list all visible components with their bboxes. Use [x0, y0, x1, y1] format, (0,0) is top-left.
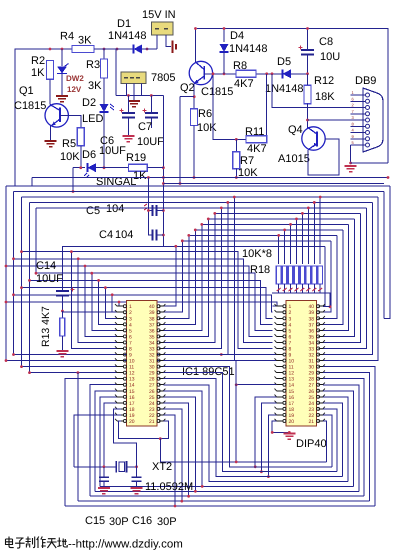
wire bottom bus 9 [163, 367, 331, 467]
DIP40 pin 5 [277, 329, 283, 331]
capacitor C15 [103, 467, 105, 477]
svg-text:1K: 1K [31, 67, 45, 79]
IC1 pin 22 [159, 414, 164, 416]
DIP40 pin 6 [277, 335, 283, 337]
connector DB9 [363, 88, 383, 152]
svg-text:10K*8: 10K*8 [242, 248, 272, 260]
wire bus B1 [6, 302, 277, 306]
DB9 pin 8 [351, 125, 365, 127]
DIP40 pin 27 [318, 384, 323, 386]
DB9 pin 7 [351, 113, 365, 115]
wire IC1 right pin 34 riser [163, 213, 214, 342]
ground DB9 [345, 166, 357, 172]
DIP40 pin 17 [277, 402, 283, 404]
wire bus B3 [22, 288, 273, 319]
wire Q2 collector line [204, 73, 307, 75]
crystal XT2 [116, 461, 126, 473]
DIP40 pin 31 [318, 360, 323, 362]
wire bus B8 [22, 252, 273, 349]
resistor R11 [246, 136, 267, 143]
svg-text:D6: D6 [82, 149, 96, 161]
IC1 pin 31 [159, 360, 164, 362]
IC1 pin 27 [159, 384, 164, 386]
IC1 pin 3 [117, 317, 123, 319]
wire IC1 right pin 38 riser [163, 235, 188, 318]
DIP40 pin 26 [318, 390, 323, 392]
resistor R18 element 2 [284, 230, 286, 264]
svg-text:1N4148: 1N4148 [229, 43, 268, 55]
DIP40 pin 20 [277, 420, 283, 422]
wire IC1 right pin 35 riser [163, 219, 208, 337]
regulator 7805 [121, 72, 146, 84]
svg-text:18K: 18K [315, 91, 335, 103]
wire DIP40 pin19 drop [268, 415, 276, 477]
ground DW2 [56, 96, 68, 102]
svg-text:4K7: 4K7 [234, 78, 254, 90]
ground DIP40 pin20 [272, 421, 289, 432]
footer glyph di [57, 538, 67, 548]
DB9 pin 9 [351, 138, 365, 140]
wire bottom bus 2 [163, 409, 369, 501]
wire bus A2 [22, 196, 379, 198]
IC1 pin 28 [159, 378, 164, 380]
svg-text:21: 21 [149, 419, 155, 425]
wire DB9 pin5 ground [350, 145, 352, 163]
wire singal left drop [72, 168, 74, 192]
svg-text:A1015: A1015 [278, 153, 310, 165]
resistor R7 [235, 139, 237, 151]
wire DIP40 pin16 drop [255, 397, 276, 467]
wire IC1 right pin 31 riser [163, 197, 234, 361]
DIP40 pin 7 [277, 341, 283, 343]
wire 15V connector pins [156, 35, 158, 49]
wire Q2 emitter branch [180, 96, 194, 98]
resistor R18 element 5 [301, 213, 303, 264]
wire left bus 4 [29, 202, 31, 372]
IC1 pin 29 [159, 372, 164, 374]
capacitor C8 [307, 29, 309, 51]
IC socket DIP40 body [286, 301, 317, 427]
DIP40 pin 23 [318, 408, 323, 410]
DIP40 pin 11 [277, 366, 283, 368]
capacitor C14 [56, 290, 69, 292]
wire 7805 pins [126, 84, 128, 96]
IC1 pin 38 [159, 317, 164, 319]
wire bus A0 [6, 185, 390, 187]
transistor Q2 [189, 61, 212, 84]
svg-text:104: 104 [115, 229, 133, 241]
DB9 pin 3 [351, 119, 365, 121]
DIP40 pin 36 [318, 329, 323, 331]
diode D1 [94, 48, 131, 50]
wire bottom bus 4 [163, 397, 358, 491]
IC1 pin 36 [159, 329, 164, 331]
DB9 pin 6 [351, 100, 365, 102]
resistor R19 [129, 164, 148, 171]
DB9 pin 4 [351, 132, 365, 134]
DB9 pin 1 [351, 94, 365, 96]
wire DB9 line row5 [308, 119, 351, 121]
DB9 pin 5 [351, 144, 365, 146]
DIP40 pin 21 [318, 420, 323, 422]
DIP40 pin 29 [318, 372, 323, 374]
svg-text:10UF: 10UF [137, 136, 164, 148]
wire pin20 pin21 ground loop [118, 421, 160, 439]
svg-text:R3: R3 [86, 59, 100, 71]
svg-text:D4: D4 [230, 30, 244, 42]
svg-text:10K: 10K [197, 122, 217, 134]
svg-text:R13 4K7: R13 4K7 [40, 306, 52, 347]
transistor Q1 [49, 79, 51, 104]
wire 7805 input from rail [115, 49, 117, 96]
wire bus A10 [182, 240, 331, 242]
resistor R18 element 8 [319, 197, 321, 264]
IC1 pin 30 [159, 366, 164, 368]
footer glyph zhi [26, 537, 35, 548]
wire bus A4 [36, 207, 366, 209]
IC1 pin 17 [117, 402, 123, 404]
ground R13 [56, 351, 68, 357]
DIP40 pin 15 [277, 390, 283, 392]
wire left bus 2 [13, 192, 15, 355]
svg-text:R2: R2 [31, 55, 45, 67]
diode D5 [283, 69, 292, 78]
IC1 pin 1 [117, 305, 123, 307]
IC1 pin 13 [117, 378, 123, 380]
footer glyph tian [47, 539, 57, 548]
wire cap drop c4c5 left [148, 178, 152, 236]
wire bus B5 [36, 273, 273, 330]
wire bus y177 [32, 177, 388, 179]
wire collector drop [213, 74, 246, 140]
capacitor C16 [136, 467, 138, 477]
wire IC1 pin11 [22, 366, 122, 368]
DIP40 pin 34 [318, 341, 323, 343]
DIP40 pin 30 [318, 366, 323, 368]
wire IC1 pin13 down-run [65, 379, 121, 506]
svg-text:Q2: Q2 [180, 82, 195, 94]
svg-text:R19: R19 [126, 152, 146, 164]
DIP40 pin 14 [277, 384, 283, 386]
wire vcc drop right [162, 96, 164, 247]
resistor R3 [103, 49, 105, 59]
svg-text:LED: LED [82, 113, 103, 125]
node riser junction [220, 353, 223, 356]
wire bus A5 [215, 212, 361, 214]
DIP40 pin 19 [277, 414, 283, 416]
svg-text:10UF: 10UF [99, 145, 126, 157]
DIP40 pin 40 [318, 305, 323, 307]
svg-text:C16: C16 [132, 515, 152, 527]
zener DW2 [61, 49, 63, 66]
svg-text:20: 20 [129, 419, 135, 425]
wire IC1 pin15 down-run [95, 391, 121, 492]
svg-text:D1: D1 [117, 18, 131, 30]
DIP40 pin 3 [277, 317, 283, 319]
IC1 pin 23 [159, 408, 164, 410]
svg-text:1K: 1K [133, 170, 147, 182]
svg-text:R6: R6 [198, 108, 212, 120]
svg-text:R12: R12 [314, 75, 334, 87]
svg-text:R7: R7 [240, 155, 254, 167]
DIP40 pin 8 [277, 347, 283, 349]
wire top rail 15V [15, 49, 157, 186]
IC1 pin 26 [159, 390, 164, 392]
DIP40 pin 38 [318, 317, 323, 319]
svg-text:DB9: DB9 [355, 75, 376, 87]
diode D4 [223, 29, 225, 43]
DB9 pin 2 [351, 107, 365, 109]
svg-text:4K7: 4K7 [247, 143, 267, 155]
resistor R18 element 6 [307, 208, 309, 264]
svg-text:30P: 30P [109, 516, 129, 528]
resistor R18 element 7 [313, 202, 315, 264]
wire bus A7 [202, 223, 349, 225]
svg-text:7805: 7805 [151, 72, 175, 84]
IC1 pin 12 [117, 372, 123, 374]
resistor R18 element 3 [290, 224, 292, 264]
svg-text:D2: D2 [82, 97, 96, 109]
wire Q1 base to R5 [60, 116, 81, 128]
DIP40 pin 16 [277, 396, 283, 398]
wire IC1 pin16 down-run [100, 397, 121, 487]
wire crystal net [74, 466, 117, 468]
svg-text:C14: C14 [36, 260, 56, 272]
wire bottom bus 3 [163, 403, 364, 496]
IC1 pin 33 [159, 347, 164, 349]
svg-text:--http://www.dzdiy.com: --http://www.dzdiy.com [68, 539, 183, 551]
wire bus A6 [208, 218, 354, 220]
resistor R5 [77, 128, 84, 146]
resistor R12 [304, 85, 311, 103]
IC1 pin 7 [117, 341, 123, 343]
IC1 pin 15 [117, 390, 123, 392]
svg-text:104: 104 [106, 203, 124, 215]
svg-text:C1815: C1815 [14, 100, 46, 112]
IC1 pin 14 [117, 384, 123, 386]
wire left bus 5 [35, 208, 37, 273]
wire serial line to DB9 [272, 74, 351, 108]
ground 7805 [133, 96, 135, 102]
capacitor C4 [153, 230, 157, 241]
wire bottom bus 8 [163, 373, 337, 472]
svg-text:R4: R4 [60, 31, 74, 43]
wire bottom bus 10 [163, 361, 326, 462]
IC1 pin 20 [117, 420, 123, 422]
IC1 pin 32 [159, 354, 164, 356]
svg-text:Q1: Q1 [19, 85, 34, 97]
IC1 pin 19 [117, 414, 123, 416]
footer bar [0, 530, 419, 552]
wire bus A9 [189, 234, 337, 236]
wire bus A11 [163, 245, 325, 247]
wire signal line [96, 167, 129, 169]
resistor R6 [191, 109, 198, 126]
wire IC1 right pin 32 riser [163, 202, 227, 354]
connector 15V IN [152, 22, 174, 35]
capacitor C7 [150, 96, 152, 114]
ground C15 [98, 488, 110, 494]
IC1 pin 6 [117, 335, 123, 337]
IC U1 89C51 body [127, 301, 158, 427]
svg-text:DIP40: DIP40 [296, 438, 327, 450]
svg-text:11.0592M: 11.0592M [145, 481, 193, 493]
IC1 pin 10 [117, 360, 123, 362]
DIP40 pin 33 [318, 347, 323, 349]
DIP40 pin 2 [277, 311, 283, 313]
resistor R2 [47, 61, 54, 80]
wire Q4 collector from R12 [307, 104, 309, 128]
DIP40 pin 13 [277, 378, 283, 380]
svg-text:C1815: C1815 [201, 86, 233, 98]
diode D6 signal [73, 167, 85, 169]
IC1 pin 8 [117, 347, 123, 349]
wire IC1 pin12 [30, 372, 122, 374]
IC1 pin 35 [159, 335, 164, 337]
transistor Q4 A1015 [302, 127, 325, 150]
wire IC1 pin14 down-run [90, 385, 121, 496]
wire Q4 emitter loop [308, 139, 339, 175]
power plug symbol [172, 41, 174, 54]
IC1 pin 37 [159, 323, 164, 325]
wire bottom bus 7 [163, 379, 342, 477]
resistor R18 element 1 [278, 235, 280, 264]
svg-text:C5: C5 [86, 205, 100, 217]
ground C16 [131, 488, 143, 494]
footer glyph dian [6, 537, 14, 548]
wire XTAL pin19 [74, 415, 121, 467]
wire filter caps bus [116, 95, 163, 97]
wire bottom bus 6 [163, 385, 348, 482]
wire IC1 right pin 37 riser [163, 230, 195, 324]
svg-text:10UF: 10UF [36, 273, 63, 285]
wire IC1 right pin 39 riser [163, 241, 182, 312]
svg-text:10U: 10U [320, 51, 340, 63]
IC1 pin 9 [117, 354, 123, 356]
svg-text:R18: R18 [250, 264, 270, 276]
wire R18 common [272, 293, 330, 307]
DIP40 pin 12 [277, 372, 283, 374]
IC1 pin 2 [117, 311, 123, 313]
DIP40 pin 28 [318, 378, 323, 380]
svg-text:R5: R5 [62, 138, 76, 150]
wire left bus 1 [5, 186, 7, 361]
IC1 pin 21 [159, 420, 164, 422]
svg-text:C8: C8 [319, 36, 333, 48]
DIP40 pin 9 [277, 354, 283, 356]
wire C14 to pin2 [62, 311, 121, 313]
wire IC1 pin10 bus [6, 360, 279, 362]
wire left bus 3 [21, 197, 23, 367]
wire bus B2 [14, 295, 273, 312]
svg-text:C7: C7 [138, 121, 152, 133]
svg-text:IC1 89C51: IC1 89C51 [182, 366, 235, 378]
svg-text:12V: 12V [67, 85, 82, 94]
svg-text:D5: D5 [277, 56, 291, 68]
wire bus A8 [195, 229, 342, 231]
DIP40 pin 4 [277, 323, 283, 325]
svg-text:15V IN: 15V IN [142, 9, 176, 21]
wire DIP40 pin14 link [236, 384, 276, 386]
svg-text:20: 20 [289, 419, 295, 425]
svg-text:1N4148: 1N4148 [265, 83, 304, 95]
wire IC1 pin17 to crystal [104, 403, 121, 467]
wire Q2 emitter to R6 [193, 84, 195, 109]
capacitor C6 [127, 96, 129, 114]
IC1 pin 34 [159, 341, 164, 343]
wire rail 5V right [197, 29, 388, 164]
svg-text:DW2: DW2 [66, 74, 84, 83]
resistor R13 [61, 311, 63, 318]
footer glyph zuo [37, 537, 46, 549]
svg-text:3K: 3K [88, 80, 102, 92]
node rail dots [49, 48, 52, 51]
wire bottom bus 5 [163, 391, 353, 487]
svg-text:3K: 3K [78, 35, 92, 47]
DIP40 pin 22 [318, 414, 323, 416]
svg-text:R8: R8 [233, 60, 247, 72]
wire DIP40 pin17 drop [261, 403, 276, 472]
DIP40 pin 1 [277, 305, 283, 307]
wire to R11 [266, 74, 268, 140]
IC1 pin 18 [117, 408, 123, 410]
IC1 pin 39 [159, 311, 164, 313]
IC1 pin 24 [159, 402, 164, 404]
wire bus B7 [14, 259, 273, 343]
IC1 pin 40 [159, 305, 164, 307]
svg-text:1N4148: 1N4148 [108, 30, 147, 42]
wire right vcc return [351, 162, 388, 164]
IC1 pin 16 [117, 396, 123, 398]
wire IC1 pin9 bus [14, 354, 122, 356]
svg-text:C15: C15 [85, 515, 105, 527]
DIP40 pin 10 [277, 360, 283, 362]
ground Q1 emitter [50, 126, 52, 142]
svg-text:R11: R11 [245, 126, 264, 138]
svg-text:21: 21 [308, 419, 314, 425]
DIP40 pin 25 [318, 396, 323, 398]
wire bus B6 [6, 266, 273, 336]
DIP40 pin 37 [318, 323, 323, 325]
IC1 pin 5 [117, 329, 123, 331]
wire bus A1 [14, 190, 385, 192]
resistor R4 [72, 48, 94, 50]
IC1 pin 11 [117, 366, 123, 368]
wire bottom bus 1 [163, 415, 375, 506]
wire bus B4 [30, 280, 273, 324]
wire IC1 right pin 33 riser [163, 208, 221, 349]
DIP40 pin 39 [318, 311, 323, 313]
DIP40 pin 24 [318, 402, 323, 404]
wire C14 top link [62, 246, 163, 291]
footer glyph zi [15, 538, 25, 548]
svg-text:30P: 30P [157, 516, 177, 528]
wire XTAL pin18 [114, 409, 137, 467]
ground C6 [122, 136, 134, 142]
IC1 pin 4 [117, 323, 123, 325]
capacitor C5 [147, 209, 150, 212]
svg-text:Q4: Q4 [288, 124, 303, 136]
svg-text:XT2: XT2 [152, 461, 172, 473]
wire ground drop [159, 439, 161, 462]
IC1 pin 25 [159, 396, 164, 398]
wire IC1 pin40 link [163, 246, 175, 306]
wire IC1 right pin 36 riser [163, 224, 201, 330]
resistor R18 element 4 [295, 219, 297, 264]
svg-text:10K: 10K [60, 151, 80, 163]
resistor R8 [236, 70, 256, 77]
DIP40 pin 18 [277, 408, 283, 410]
